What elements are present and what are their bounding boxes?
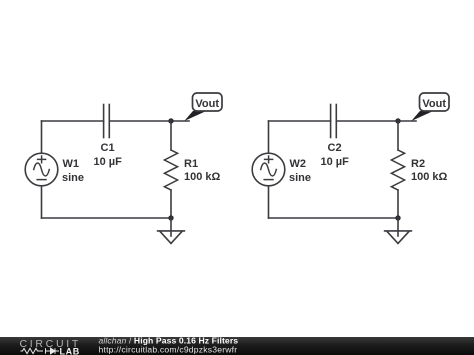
logo resistor-diode glyph <box>21 348 60 354</box>
capacitor C1 <box>104 105 110 138</box>
flag Vout <box>184 93 222 121</box>
wire <box>170 218 172 236</box>
wire <box>268 121 270 154</box>
node Vout2 (junction) <box>395 118 400 123</box>
svg-text:C2: C2 <box>328 142 342 154</box>
wire <box>42 217 172 219</box>
svg-text:LAB: LAB <box>60 346 80 355</box>
svg-text:100 kΩ: 100 kΩ <box>184 171 221 183</box>
wire <box>41 186 43 218</box>
svg-text:R1: R1 <box>184 158 198 170</box>
voltage source W2 <box>252 153 285 186</box>
flag Vout <box>411 93 449 121</box>
wire <box>268 186 270 218</box>
wire <box>109 120 171 122</box>
node (junction) <box>168 215 173 220</box>
svg-text:sine: sine <box>289 172 311 184</box>
wire <box>397 218 399 236</box>
svg-text:Vout: Vout <box>195 98 219 110</box>
svg-text:W2: W2 <box>290 158 307 170</box>
svg-text:W1: W1 <box>63 158 80 170</box>
wire <box>336 120 398 122</box>
resistor R1 <box>164 121 177 218</box>
svg-text:100 kΩ: 100 kΩ <box>411 171 448 183</box>
capacitor C2 <box>331 105 337 138</box>
node (junction) <box>395 215 400 220</box>
svg-text:http://circuitlab.com/c9dpzks3: http://circuitlab.com/c9dpzks3erwfr <box>99 344 238 354</box>
svg-text:C1: C1 <box>101 142 115 154</box>
wire <box>42 120 104 122</box>
wire <box>398 120 416 122</box>
wire <box>41 121 43 154</box>
node Vout (junction) <box>168 118 173 123</box>
footer bar <box>0 337 474 355</box>
svg-text:10 µF: 10 µF <box>321 156 350 168</box>
wire <box>269 217 399 219</box>
resistor R2 <box>391 121 404 218</box>
ground <box>158 231 185 244</box>
svg-text:sine: sine <box>62 172 84 184</box>
voltage source W1 <box>25 153 58 186</box>
wire <box>269 120 331 122</box>
svg-text:Vout: Vout <box>422 98 446 110</box>
ground <box>385 231 412 244</box>
wire <box>171 120 189 122</box>
svg-text:R2: R2 <box>411 158 425 170</box>
svg-text:10 µF: 10 µF <box>94 156 123 168</box>
